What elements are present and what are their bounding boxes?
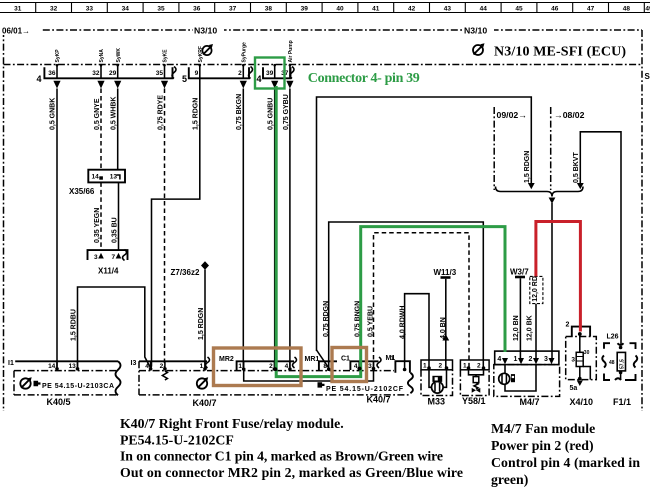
- wire 0,75 RDYE pin35 to K40/7-2: [157, 89, 164, 369]
- svg-text:SyNA: SyNA: [99, 49, 105, 63]
- svg-text:4,0 BN: 4,0 BN: [440, 317, 447, 339]
- svg-text:K40/7: K40/7: [193, 398, 217, 408]
- ECU pin 36: [48, 64, 60, 89]
- svg-text:1,5 RDGN: 1,5 RDGN: [524, 151, 531, 183]
- svg-text:31: 31: [14, 5, 22, 12]
- svg-text:3: 3: [368, 363, 372, 370]
- svg-text:34: 34: [122, 5, 130, 12]
- svg-text:2: 2: [160, 363, 164, 370]
- svg-text:30: 30: [584, 350, 590, 356]
- svg-text:2: 2: [477, 363, 481, 370]
- ECU pin 37: [281, 64, 293, 89]
- svg-text:4,0 RDWH: 4,0 RDWH: [400, 306, 407, 339]
- svg-text:5a: 5a: [570, 385, 578, 392]
- svg-text:L26: L26: [607, 334, 619, 341]
- svg-text:2: 2: [269, 363, 273, 370]
- svg-text:0,75 RDGN: 0,75 RDGN: [323, 301, 330, 337]
- svg-text:0,75 RDYE: 0,75 RDYE: [157, 95, 164, 130]
- wire 4,0 BN W11/3 to M33-2: [440, 279, 449, 368]
- svg-text:1,5 RDBU: 1,5 RDBU: [70, 309, 77, 341]
- svg-text:47: 47: [587, 5, 595, 12]
- pump icon above pin 9: [202, 44, 213, 55]
- grid ruler strip: [0, 3, 650, 13]
- caption right: [491, 421, 640, 488]
- svg-text:W3/7: W3/7: [510, 268, 529, 277]
- svg-text:Power pin 2 (red): Power pin 2 (red): [491, 438, 594, 454]
- ECU pin 9: [195, 64, 201, 78]
- svg-text:S: S: [645, 72, 650, 81]
- wire 12,0 BK to M4/7-2: [527, 304, 536, 359]
- wire to M4/7 pin3: [551, 203, 553, 359]
- svg-text:Connector 4- pin 39: Connector 4- pin 39: [308, 71, 420, 86]
- svg-text:Air Pump: Air Pump: [288, 40, 294, 62]
- svg-text:X11/4: X11/4: [98, 267, 119, 276]
- svg-text:N3/10 ME-SFI (ECU): N3/10 ME-SFI (ECU): [494, 45, 626, 60]
- svg-text:4: 4: [285, 363, 289, 370]
- svg-text:X4/10: X4/10: [570, 397, 594, 407]
- svg-text:36: 36: [193, 5, 201, 12]
- wire 0,5 BKVT to 08/02 callout and F1/1: [573, 132, 621, 346]
- svg-text:Out on connector MR2 pin 2, ma: Out on connector MR2 pin 2, marked as Gr…: [120, 465, 463, 480]
- svg-text:12,0 BK: 12,0 BK: [527, 315, 534, 341]
- svg-text:1: 1: [463, 363, 467, 370]
- wire 1,5 RDGN Z7/36z2 to K40/7-1: [198, 270, 205, 369]
- svg-text:43: 43: [444, 5, 452, 12]
- wire MR2-1 to C1-3: [244, 368, 374, 382]
- valve Y58/1: [460, 360, 489, 406]
- red trace X4/10 to M4/7 pin2: [536, 222, 581, 332]
- page border right: [641, 30, 643, 411]
- svg-text:Y58/1: Y58/1: [462, 396, 486, 406]
- fan module M4/7: [494, 351, 560, 407]
- wire 0,75 BKGN pin2 to K40/7 MR2-1: [236, 89, 243, 369]
- wire 0,35 YEGN X35/66-14 to X11/4-3: [94, 182, 101, 250]
- ECU pin 2: [238, 64, 247, 89]
- svg-text:F1/1: F1/1: [613, 397, 631, 407]
- svg-text:PE54.15-U-2102CF: PE54.15-U-2102CF: [120, 433, 234, 448]
- svg-text:8: 8: [323, 363, 327, 370]
- svg-text:→08/02: →08/02: [554, 110, 585, 120]
- node N3/10 label left: [193, 24, 224, 36]
- connector X35/66: [69, 170, 125, 196]
- svg-text:1,5 RDGN: 1,5 RDGN: [193, 98, 200, 130]
- svg-text:0,5 GNBU: 0,5 GNBU: [268, 98, 275, 130]
- svg-text:49: 49: [645, 5, 650, 12]
- junction dot C1 pin 4 over green: [358, 367, 362, 371]
- motor M33: [421, 360, 453, 407]
- wire 1,5 RDBU K40/5-13 to K40/7-4: [70, 287, 150, 369]
- svg-text:29: 29: [109, 70, 117, 77]
- svg-text:0,5 BKVT: 0,5 BKVT: [573, 152, 580, 183]
- wire 12,0 BN W3/7 to M4/7-1: [513, 278, 520, 359]
- green trace pin39-MR2/2-C1/4-M4/7 pin4: [276, 86, 505, 377]
- svg-text:In on connector C1 pin 4, mark: In on connector C1 pin 4, marked as Brow…: [120, 449, 443, 464]
- svg-text:36: 36: [48, 70, 56, 77]
- svg-text:45: 45: [515, 5, 523, 12]
- ECU pin signal names: [55, 40, 294, 62]
- connector X11/4: [88, 250, 128, 276]
- svg-text:12,0 RD: 12,0 RD: [532, 276, 539, 302]
- svg-text:2: 2: [439, 363, 443, 370]
- brown highlight box C1: [332, 348, 367, 382]
- svg-text:12,0 BN: 12,0 BN: [513, 315, 520, 341]
- connector 5 bracket: [182, 67, 253, 85]
- svg-text:M4/7 Fan module: M4/7 Fan module: [491, 421, 595, 436]
- svg-text:35: 35: [156, 70, 164, 77]
- wire 1,5 RDGN MR1-8 to 09/02 callout: [317, 97, 535, 367]
- svg-text:N3/10: N3/10: [464, 26, 487, 36]
- splice Z7/36z2: [171, 261, 210, 277]
- brown highlight box MR2: [214, 348, 302, 386]
- svg-text:MR2: MR2: [219, 356, 234, 363]
- relay module K40/7: [131, 355, 413, 408]
- ECU pin 32: [92, 64, 104, 89]
- wire 0,75 RDGN MR1-8 to Y58/1-2: [323, 222, 483, 369]
- svg-text:4: 4: [257, 74, 262, 84]
- svg-text:41: 41: [372, 5, 380, 12]
- svg-text:I1: I1: [8, 360, 14, 367]
- svg-text:K40/5: K40/5: [47, 397, 71, 407]
- wire 0,5 WHBK pin29 to X35/66-13: [111, 89, 118, 170]
- caption left: [120, 416, 463, 480]
- svg-text:0,5 WHBK: 0,5 WHBK: [111, 97, 118, 130]
- svg-text:33: 33: [86, 5, 94, 12]
- svg-text:1: 1: [390, 355, 394, 362]
- green highlight box pins 39/37: [255, 58, 285, 89]
- connector 4 bracket: [37, 67, 177, 85]
- svg-text:1: 1: [200, 363, 204, 370]
- svg-text:M33: M33: [428, 397, 446, 407]
- ground W11/3: [434, 268, 457, 278]
- svg-text:4: 4: [354, 363, 358, 370]
- cable bracket: [496, 187, 584, 204]
- junction dot MR2 pin 2 over green: [274, 367, 278, 371]
- svg-text:0,75 BKGN: 0,75 BKGN: [236, 94, 243, 130]
- wire 4,0 RDWH M1 to M33-1: [400, 294, 430, 370]
- svg-text:X35/66: X35/66: [69, 187, 95, 196]
- svg-text:4: 4: [497, 356, 501, 363]
- svg-text:1: 1: [514, 356, 518, 363]
- svg-text:green): green): [491, 472, 528, 488]
- fuse label 12,0 RD: [530, 276, 543, 303]
- svg-text:1: 1: [238, 363, 242, 370]
- svg-text:3: 3: [94, 254, 98, 261]
- wire 0,5 GNBU pin39 to K40/7 MR2-2: [268, 89, 275, 369]
- svg-text:SyPurge: SyPurge: [242, 42, 248, 63]
- svg-text:40: 40: [336, 5, 344, 12]
- off-page reference 08/02: [551, 107, 585, 190]
- svg-text:1,5 RDGN: 1,5 RDGN: [198, 308, 205, 340]
- svg-text:0,35 YEGN: 0,35 YEGN: [94, 208, 101, 243]
- svg-text:13: 13: [110, 174, 118, 181]
- svg-text:I3: I3: [131, 360, 137, 367]
- svg-text:37: 37: [229, 5, 237, 12]
- svg-text:PE 54.15-U-2102CF: PE 54.15-U-2102CF: [326, 386, 404, 393]
- svg-text:K40/7 Right Front Fuse/relay m: K40/7 Right Front Fuse/relay module.: [120, 416, 344, 431]
- svg-text:1: 1: [423, 363, 427, 370]
- wire 0,5 GNYE pin32 to X35/66-14: [94, 89, 101, 170]
- svg-text:3: 3: [571, 357, 575, 364]
- page border left: [3, 30, 5, 411]
- wire 0,5 GNBK pin36 to K40/5-14: [50, 89, 57, 369]
- svg-text:14: 14: [48, 363, 56, 370]
- svg-text:C1: C1: [341, 356, 350, 363]
- svg-text:PE 54.15-U-2103CA: PE 54.15-U-2103CA: [42, 383, 114, 390]
- fuse box F1/1 with L26: [602, 334, 637, 408]
- op-unit icon for ECU title: [473, 43, 485, 55]
- svg-text:2: 2: [238, 70, 242, 77]
- svg-text:42: 42: [408, 5, 416, 12]
- svg-text:2: 2: [566, 322, 570, 329]
- svg-text:57,5: 57,5: [620, 359, 626, 369]
- svg-text:44: 44: [480, 5, 488, 12]
- svg-text:0,35 BU: 0,35 BU: [111, 217, 118, 243]
- wire 0,75 GYBU pin37 to K40/7 MR2-4: [283, 89, 290, 369]
- ruler ticks: [14, 3, 650, 13]
- ECU pin 39: [266, 64, 278, 89]
- label 06/01: [1, 24, 41, 36]
- connector 4 bracket (pins 39/37): [257, 67, 295, 85]
- svg-text:32: 32: [92, 70, 100, 77]
- svg-text:W11/3: W11/3: [434, 268, 457, 277]
- ground W3/7: [510, 268, 529, 278]
- svg-text:32: 32: [50, 5, 58, 12]
- junction dot X4/10 pin 2 over red: [578, 332, 582, 336]
- svg-text:SyKP: SyKP: [55, 49, 61, 63]
- svg-text:9: 9: [195, 70, 199, 77]
- svg-text:48: 48: [609, 360, 615, 366]
- wire 0,5 YEBU C1-3 to Y58/1-1: [367, 233, 469, 368]
- svg-text:2: 2: [529, 356, 533, 363]
- svg-text:0,75 GYBU: 0,75 GYBU: [283, 94, 290, 130]
- svg-text:4: 4: [37, 74, 42, 84]
- svg-text:Control pin 4 (marked in: Control pin 4 (marked in: [491, 455, 640, 471]
- svg-text:M4/7: M4/7: [520, 397, 540, 407]
- svg-text:14: 14: [92, 174, 100, 181]
- svg-text:SyWK: SyWK: [116, 48, 122, 63]
- svg-text:39: 39: [301, 5, 309, 12]
- wire 0,35 BU X35/66-13 to X11/4-7: [111, 182, 118, 250]
- page border top: [2, 29, 642, 31]
- svg-text:38: 38: [265, 5, 273, 12]
- relay module K40/5: [8, 360, 121, 407]
- svg-text:0,5 GNBK: 0,5 GNBK: [50, 98, 57, 130]
- svg-text:3: 3: [544, 356, 548, 363]
- svg-text:39: 39: [266, 70, 274, 77]
- svg-text:06/01→: 06/01→: [2, 27, 30, 36]
- svg-text:0,5 GNYE: 0,5 GNYE: [94, 98, 101, 130]
- svg-text:0,5 YEBU: 0,5 YEBU: [367, 306, 374, 337]
- svg-text:MR1: MR1: [305, 356, 320, 363]
- svg-text:13: 13: [69, 363, 77, 370]
- ECU bottom boundary: [4, 64, 643, 66]
- node N3/10 label right: [463, 24, 494, 36]
- svg-text:7: 7: [112, 254, 116, 261]
- svg-text:35: 35: [157, 5, 165, 12]
- off-page reference 09/02: [494, 107, 527, 190]
- ECU pin 29: [109, 64, 121, 89]
- svg-text:N3/10: N3/10: [194, 26, 217, 36]
- svg-text:SyKE: SyKE: [163, 49, 169, 63]
- svg-text:K40/7: K40/7: [367, 395, 391, 405]
- svg-text:5: 5: [182, 74, 187, 84]
- ECU pin 35: [156, 64, 168, 89]
- wire 1,5 RDGN pin9 to K40/7-4: [151, 78, 200, 368]
- svg-text:Z7/36z2: Z7/36z2: [171, 268, 200, 277]
- svg-text:48: 48: [623, 5, 631, 12]
- svg-text:4: 4: [145, 363, 149, 370]
- svg-text:46: 46: [551, 5, 559, 12]
- connector X4/10: [566, 322, 597, 408]
- svg-text:09/02→: 09/02→: [497, 110, 527, 120]
